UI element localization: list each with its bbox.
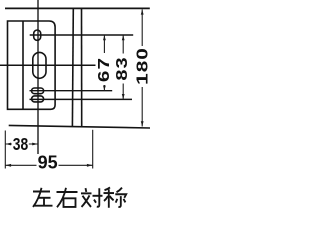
kanji 称	[105, 187, 111, 190]
dimension 95 text	[37, 155, 59, 170]
kanji 対	[85, 188, 88, 192]
small slot upper	[32, 88, 44, 94]
dimension 180 line	[141, 9, 143, 126]
svg-text:95: 95	[38, 153, 58, 173]
extension line right	[92, 130, 94, 169]
bottom edge line	[9, 125, 150, 128]
large oval slot	[33, 52, 46, 78]
horizontal line through keyhole slot	[30, 34, 134, 36]
dimension 83 line	[122, 35, 124, 99]
centerline	[37, 0, 39, 154]
kanji 左	[33, 190, 50, 192]
dimension 95 line	[5, 164, 92, 166]
keyhole slot top	[34, 30, 41, 40]
horizontal line through upper small slot	[30, 90, 113, 92]
svg-text:38: 38	[13, 135, 28, 155]
dimension 38 line	[5, 143, 38, 145]
svg-text:180: 180	[133, 47, 151, 85]
svg-text:83: 83	[113, 56, 131, 80]
svg-text:67: 67	[95, 57, 113, 82]
plate bend line	[22, 21, 24, 109]
top edge line	[5, 7, 150, 9]
horizontal line through lower small slot	[30, 98, 133, 100]
dimension 180 text	[133, 46, 147, 87]
horizontal mid line	[0, 64, 96, 66]
small slot lower	[32, 96, 44, 102]
dimension 67 line	[103, 35, 105, 90]
dimension 67 text	[97, 53, 111, 85]
mounting plate outline	[8, 21, 56, 109]
extension line left	[4, 131, 6, 169]
dimension 38 text	[12, 137, 29, 152]
dimension 83 text	[115, 54, 129, 84]
fixture body right vertical	[81, 9, 83, 127]
fixture body left vertical	[71, 9, 74, 127]
kanji 右	[57, 191, 78, 193]
label 左右対称	[33, 187, 126, 207]
